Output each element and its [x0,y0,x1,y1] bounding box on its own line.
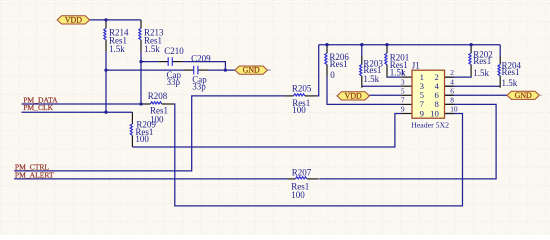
svg-text:9: 9 [420,108,424,118]
svg-text:R205: R205 [292,83,312,93]
svg-text:3: 3 [401,77,405,86]
svg-text:8: 8 [450,96,454,105]
svg-text:GND: GND [515,91,532,100]
svg-text:100: 100 [291,190,305,200]
svg-text:1.5k: 1.5k [502,78,518,88]
svg-text:33p: 33p [192,82,206,92]
svg-text:1.5k: 1.5k [144,44,160,54]
svg-text:PM_ALERT: PM_ALERT [15,170,54,179]
svg-text:R207: R207 [292,167,312,177]
svg-text:9: 9 [401,105,405,114]
svg-text:J1: J1 [412,61,420,71]
svg-text:VDD: VDD [345,92,362,101]
svg-text:C209: C209 [191,54,211,64]
svg-text:2: 2 [450,68,454,77]
svg-text:C210: C210 [164,46,184,56]
svg-text:100: 100 [135,134,149,144]
svg-text:100: 100 [292,105,306,115]
svg-text:PM_CLK: PM_CLK [23,103,53,112]
svg-text:Res1: Res1 [330,59,348,69]
svg-text:10: 10 [450,105,458,114]
svg-text:VDD: VDD [65,16,82,25]
svg-text:4: 4 [450,77,454,86]
svg-text:5: 5 [401,86,405,95]
svg-text:R208: R208 [148,91,168,101]
svg-text:1.5k: 1.5k [363,74,379,84]
svg-text:33p: 33p [167,77,181,87]
svg-text:1.5k: 1.5k [473,68,489,78]
svg-text:1.5k: 1.5k [390,67,406,77]
svg-text:10: 10 [430,108,439,118]
svg-text:0: 0 [330,70,335,80]
svg-text:Res1: Res1 [473,56,491,66]
svg-text:6: 6 [450,86,454,95]
svg-text:GND: GND [243,66,260,75]
svg-text:Res1: Res1 [502,67,520,77]
svg-text:7: 7 [401,96,405,105]
svg-text:1.5k: 1.5k [109,44,125,54]
svg-text:Header 5X2: Header 5X2 [411,120,449,129]
